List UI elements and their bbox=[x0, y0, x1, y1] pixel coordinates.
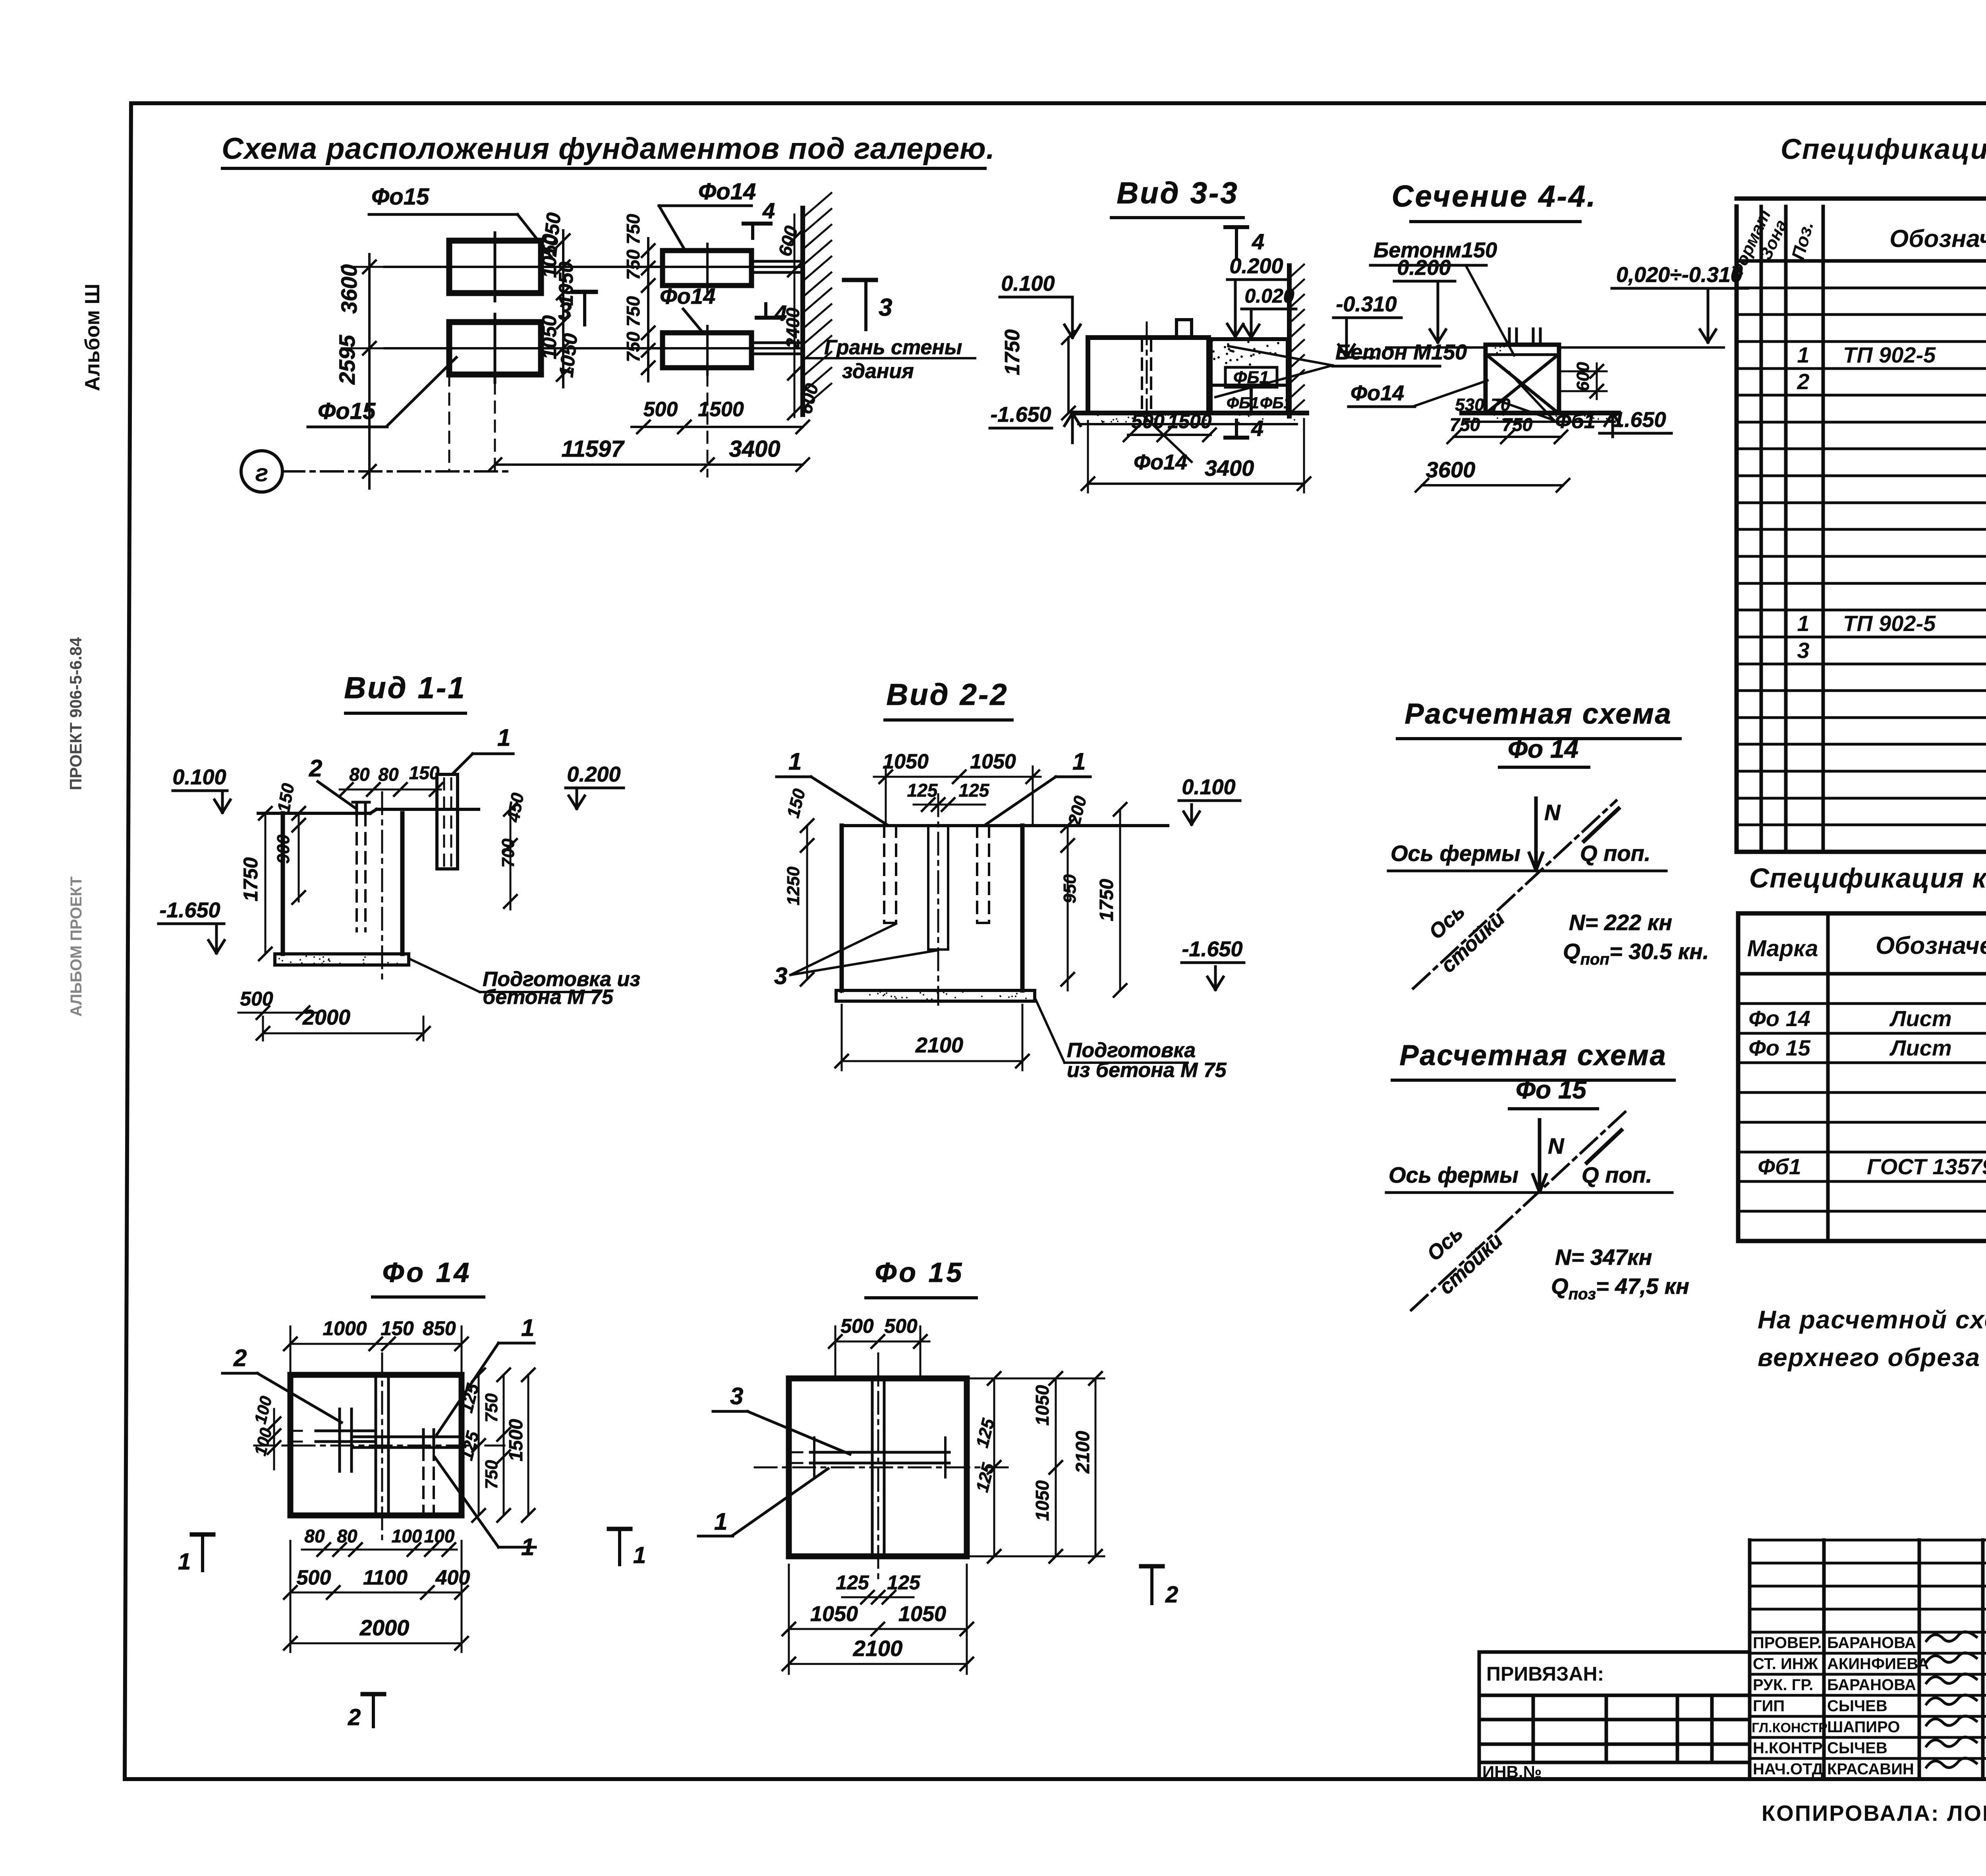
svg-text:1: 1 bbox=[633, 1542, 646, 1568]
svg-text:ПРОЕКТ 906-5-6.84: ПРОЕКТ 906-5-6.84 bbox=[66, 637, 85, 790]
foundation Фо14 lower bbox=[663, 333, 752, 368]
svg-text:1: 1 bbox=[714, 1508, 727, 1535]
svg-text:-1.650: -1.650 bbox=[159, 898, 220, 922]
svg-text:СТ. ИНЖ: СТ. ИНЖ bbox=[1753, 1655, 1818, 1673]
svg-text:Лист: Лист bbox=[1889, 1035, 1952, 1060]
svg-text:Q поп.: Q поп. bbox=[1580, 841, 1650, 866]
svg-text:здания: здания bbox=[842, 360, 914, 383]
anchors dashed bbox=[883, 826, 885, 923]
section mark 2 right bbox=[1141, 1564, 1163, 1569]
svg-text:850: 850 bbox=[423, 1317, 456, 1339]
svg-text:1750: 1750 bbox=[240, 857, 262, 901]
N arrow bbox=[1534, 798, 1538, 870]
svg-text:Обозначение: Обозначение bbox=[1889, 225, 1986, 253]
svg-text:Вид 3-3: Вид 3-3 bbox=[1117, 176, 1238, 210]
anchor stub on top bbox=[1177, 320, 1192, 338]
spec table 1: Спецификация монолитных фундаментов bbox=[1737, 199, 1986, 852]
svg-text:Фб1: Фб1 bbox=[1555, 410, 1596, 433]
ground lines bbox=[1386, 346, 1486, 349]
left dims 100 100 bbox=[273, 1409, 275, 1469]
svg-text:750: 750 bbox=[1450, 414, 1480, 435]
svg-text:Расчетная схема: Расчетная схема bbox=[1399, 1040, 1667, 1071]
svg-text:Ось фермы: Ось фермы bbox=[1389, 1162, 1518, 1187]
axes bbox=[254, 1445, 504, 1447]
svg-text:500: 500 bbox=[297, 1566, 331, 1589]
svg-text:2: 2 bbox=[348, 1704, 361, 1730]
svg-text:Фо14: Фо14 bbox=[660, 284, 715, 309]
joint double line bbox=[375, 1375, 377, 1515]
svg-text:-0.310: -0.310 bbox=[1336, 292, 1397, 316]
svg-text:0.100: 0.100 bbox=[1001, 272, 1055, 295]
svg-text:СЫЧЕВ: СЫЧЕВ bbox=[1827, 1739, 1887, 1757]
svg-text:750: 750 bbox=[1502, 414, 1533, 435]
svg-text:100: 100 bbox=[392, 1526, 422, 1546]
svg-text:2: 2 bbox=[233, 1345, 247, 1371]
svg-text:КОПИРОВАЛА: ЛОГИНОВА: КОПИРОВАЛА: ЛОГИНОВА bbox=[1762, 1801, 1986, 1826]
section mark 4 top bbox=[1225, 225, 1247, 229]
стойка axis diagonal bbox=[1413, 801, 1616, 988]
plan Фо 14 bbox=[178, 1257, 646, 1730]
svg-text:1500: 1500 bbox=[1167, 410, 1211, 432]
svg-text:4: 4 bbox=[774, 301, 787, 326]
dim 500 1500 bbox=[632, 426, 803, 428]
svg-text:1050: 1050 bbox=[555, 332, 582, 378]
svg-text:Альбом Ш: Альбом Ш bbox=[81, 284, 104, 391]
svg-text:БАРАНОВА: БАРАНОВА bbox=[1827, 1676, 1916, 1694]
N arrow bbox=[1538, 1120, 1542, 1191]
svg-text:1: 1 bbox=[178, 1549, 191, 1575]
svg-text:1500: 1500 bbox=[506, 1419, 527, 1461]
svg-text:Схема расположения фундаментов: Схема расположения фундаментов под галер… bbox=[222, 132, 995, 166]
center stakan bbox=[927, 826, 929, 950]
svg-text:1050: 1050 bbox=[1032, 1385, 1053, 1426]
svg-text:Фо14: Фо14 bbox=[1134, 450, 1187, 474]
title block (штамп) bbox=[1479, 1540, 1986, 1779]
svg-text:2100: 2100 bbox=[1072, 1431, 1093, 1474]
svg-text:Обозначение: Обозначение bbox=[1876, 932, 1986, 959]
svg-text:500: 500 bbox=[840, 1315, 874, 1337]
svg-text:Бетон М150: Бетон М150 bbox=[1335, 340, 1467, 364]
right dim chains bbox=[993, 1378, 995, 1556]
svg-text:1: 1 bbox=[521, 1314, 534, 1341]
svg-text:125: 125 bbox=[959, 780, 990, 801]
svg-text:0.100: 0.100 bbox=[1182, 775, 1235, 799]
base line and подготовка bbox=[1072, 411, 1307, 415]
svg-text:11597: 11597 bbox=[562, 436, 625, 462]
svg-text:1050: 1050 bbox=[883, 750, 929, 773]
section mark 2 bottom bbox=[363, 1692, 384, 1697]
svg-text:АКИНФИЕВА: АКИНФИЕВА bbox=[1827, 1655, 1929, 1673]
svg-text:125: 125 bbox=[836, 1571, 869, 1594]
svg-text:ПРИВЯЗАН:: ПРИВЯЗАН: bbox=[1486, 1663, 1604, 1685]
right anchor bbox=[354, 1436, 459, 1438]
svg-text:Фо 14: Фо 14 bbox=[1748, 1006, 1810, 1031]
dims 600 2400 600 near wall bbox=[794, 214, 796, 417]
view Вид 3-3 bbox=[990, 176, 1467, 492]
right dim chains bbox=[478, 1375, 480, 1515]
dims right 200 950 1750 bbox=[1067, 826, 1069, 990]
dim 1750 bbox=[265, 813, 267, 954]
svg-text:1050: 1050 bbox=[970, 750, 1016, 773]
svg-text:1050: 1050 bbox=[538, 211, 565, 258]
dim chain left (3600 / 2595) bbox=[368, 254, 371, 488]
spec table 2: Спецификация к схеме bbox=[1738, 913, 1986, 1241]
svg-text:Ось фермы: Ось фермы bbox=[1391, 841, 1520, 866]
svg-text:2: 2 bbox=[309, 755, 322, 782]
svg-text:1100: 1100 bbox=[363, 1566, 408, 1589]
base slab подготовка bbox=[275, 954, 409, 965]
ферма axis line bbox=[1388, 870, 1666, 872]
foundation Фо15 lower square bbox=[449, 322, 541, 374]
svg-text:НАЧ.ОТД: НАЧ.ОТД bbox=[1753, 1760, 1823, 1778]
svg-text:2: 2 bbox=[1797, 369, 1809, 394]
svg-text:ПРОВЕР.: ПРОВЕР. bbox=[1753, 1634, 1822, 1652]
svg-text:1: 1 bbox=[1797, 611, 1809, 636]
svg-text:ТП 902-5: ТП 902-5 bbox=[1843, 342, 1936, 367]
расчетная схема Фо 14 bbox=[1388, 698, 1709, 988]
dims right 450 700 bbox=[510, 809, 512, 909]
svg-text:Спецификация монолитных фундам: Спецификация монолитных фундаментов bbox=[1781, 133, 1986, 165]
svg-text:3: 3 bbox=[730, 1383, 743, 1409]
svg-text:3400: 3400 bbox=[729, 436, 780, 462]
svg-text:2: 2 bbox=[1165, 1582, 1178, 1608]
svg-text:80: 80 bbox=[304, 1526, 325, 1546]
svg-text:400: 400 bbox=[435, 1566, 470, 1589]
section mark 3 left bbox=[573, 290, 596, 294]
svg-text:3: 3 bbox=[558, 298, 572, 325]
svg-text:Фо 14: Фо 14 bbox=[383, 1257, 472, 1288]
Q arrow bbox=[1587, 1130, 1621, 1163]
svg-text:1250: 1250 bbox=[784, 867, 803, 905]
svg-text:Фо15: Фо15 bbox=[371, 184, 429, 210]
svg-text:ТП 902-5: ТП 902-5 bbox=[1843, 611, 1936, 636]
section mark 1 right bbox=[609, 1527, 630, 1531]
svg-text:N: N bbox=[1544, 800, 1561, 825]
svg-text:Фо14: Фо14 bbox=[698, 179, 756, 205]
block wall ФБ1 bbox=[1211, 339, 1288, 413]
building wall with hatch bbox=[800, 208, 805, 415]
svg-text:2100: 2100 bbox=[915, 1033, 963, 1057]
joint double line bbox=[871, 1378, 874, 1556]
svg-text:Фо14: Фо14 bbox=[1350, 381, 1404, 405]
right anchor column bbox=[437, 773, 458, 776]
svg-text:0.100: 0.100 bbox=[172, 765, 226, 789]
svg-text:750: 750 bbox=[482, 1393, 501, 1422]
dim 750 750 at Фо14 bbox=[647, 238, 649, 381]
wire: dashed projection line bbox=[448, 374, 450, 471]
svg-text:2000: 2000 bbox=[302, 1006, 350, 1029]
svg-text:950: 950 bbox=[1060, 874, 1080, 903]
svg-text:КРАСАВИН: КРАСАВИН bbox=[1827, 1760, 1914, 1778]
svg-text:100: 100 bbox=[424, 1526, 455, 1546]
outline bbox=[789, 1378, 967, 1556]
svg-text:0.020: 0.020 bbox=[1244, 285, 1294, 307]
foundation Фо15 upper square bbox=[449, 241, 541, 293]
svg-text:Лист: Лист bbox=[1889, 1006, 1952, 1031]
svg-text:3600: 3600 bbox=[336, 264, 361, 314]
svg-text:0.200: 0.200 bbox=[1397, 256, 1451, 280]
wall connection strips bbox=[752, 260, 803, 263]
dim 600 right bbox=[1596, 363, 1598, 399]
base slab bbox=[836, 990, 1035, 1001]
svg-text:500: 500 bbox=[884, 1315, 918, 1337]
svg-text:3: 3 bbox=[774, 963, 787, 989]
left anchors dashed bbox=[353, 801, 369, 804]
svg-text:0.200: 0.200 bbox=[567, 762, 620, 786]
стойка axis diagonal bbox=[1411, 1109, 1629, 1310]
dim 1750 bbox=[1067, 338, 1070, 413]
ферма axis line bbox=[1386, 1191, 1672, 1194]
svg-text:N= 347кн: N= 347кн bbox=[1555, 1245, 1652, 1270]
view Сечение 4-4 bbox=[1348, 179, 1748, 492]
svg-text:150: 150 bbox=[409, 762, 440, 783]
svg-text:Сечение 4-4.: Сечение 4-4. bbox=[1392, 179, 1597, 213]
bottom dim 11597 / 3400 bbox=[495, 463, 803, 466]
svg-text:750 750: 750 750 bbox=[623, 296, 643, 362]
svg-text:1500: 1500 bbox=[698, 398, 744, 421]
axes bbox=[755, 1467, 1011, 1469]
svg-text:2100: 2100 bbox=[853, 1636, 903, 1661]
building wall hatch bbox=[1287, 266, 1292, 416]
svg-text:3: 3 bbox=[1797, 638, 1809, 663]
svg-text:1050: 1050 bbox=[898, 1602, 946, 1626]
anchor horizontals bbox=[810, 1451, 949, 1454]
view Вид 1-1 bbox=[158, 671, 640, 1040]
foundation body bbox=[1088, 338, 1209, 413]
dims left 150 900 bbox=[298, 813, 300, 901]
dims left 150 1250 bbox=[806, 826, 808, 979]
left anchor bbox=[338, 1409, 341, 1471]
svg-text:ФБ1: ФБ1 bbox=[1227, 394, 1259, 412]
svg-text:1: 1 bbox=[1072, 748, 1086, 775]
svg-text:3: 3 bbox=[879, 294, 892, 321]
svg-text:СЫЧЕВ: СЫЧЕВ bbox=[1827, 1697, 1887, 1715]
axis bbox=[937, 794, 939, 1005]
svg-text:Фо 15: Фо 15 bbox=[1516, 1075, 1587, 1104]
svg-text:1050: 1050 bbox=[810, 1602, 858, 1626]
svg-text:1: 1 bbox=[788, 748, 802, 775]
svg-text:4: 4 bbox=[1252, 229, 1264, 254]
svg-text:1050: 1050 bbox=[1032, 1480, 1053, 1521]
svg-text:-1.650: -1.650 bbox=[1605, 408, 1666, 432]
svg-text:3400: 3400 bbox=[1205, 455, 1254, 481]
base slab bbox=[1462, 411, 1619, 415]
pedestal bbox=[840, 826, 844, 990]
svg-text:700: 700 bbox=[498, 838, 518, 868]
truss axis upper bbox=[384, 266, 803, 268]
svg-text:-1.650: -1.650 bbox=[1182, 937, 1242, 961]
svg-text:150: 150 bbox=[381, 1317, 414, 1339]
svg-text:2000: 2000 bbox=[359, 1615, 410, 1640]
svg-text:750: 750 bbox=[482, 1460, 501, 1489]
truss axis lower bbox=[384, 347, 803, 349]
svg-text:1: 1 bbox=[1797, 342, 1809, 367]
svg-text:4: 4 bbox=[762, 198, 775, 223]
svg-text:г: г bbox=[255, 459, 268, 487]
svg-text:Спецификация к схеме расположе: Спецификация к схеме расположения фундам… bbox=[1749, 863, 1986, 894]
column bbox=[1486, 345, 1559, 413]
svg-text:N= 222 кн: N= 222 кн bbox=[1569, 910, 1672, 935]
svg-text:Фо 15: Фо 15 bbox=[1748, 1035, 1811, 1060]
svg-text:2595: 2595 bbox=[334, 335, 359, 385]
svg-text:500: 500 bbox=[643, 398, 678, 421]
view Вид 2-2 bbox=[774, 678, 1244, 1082]
расчетная схема Фо 15 bbox=[1386, 1040, 1689, 1310]
svg-text:3600: 3600 bbox=[1426, 457, 1476, 482]
svg-text:530: 530 bbox=[1455, 395, 1484, 415]
outline bbox=[290, 1375, 462, 1515]
section mark 1 left bbox=[192, 1532, 213, 1537]
foundation Фо14 upper bbox=[663, 251, 752, 286]
svg-text:ИНВ.№: ИНВ.№ bbox=[1482, 1762, 1542, 1781]
svg-text:Вид 1-1: Вид 1-1 bbox=[344, 671, 466, 705]
pedestal bbox=[281, 813, 285, 954]
svg-text:600: 600 bbox=[1573, 362, 1593, 391]
svg-text:БАРАНОВА: БАРАНОВА bbox=[1827, 1634, 1916, 1652]
svg-text:ГОСТ 13579-78: ГОСТ 13579-78 bbox=[1867, 1154, 1986, 1179]
svg-text:125: 125 bbox=[887, 1571, 921, 1594]
svg-text:ГИП: ГИП bbox=[1753, 1697, 1785, 1715]
svg-text:1000: 1000 bbox=[323, 1317, 367, 1339]
svg-text:Расчетная схема: Расчетная схема bbox=[1404, 698, 1672, 730]
lines to right for dim 600 bbox=[1559, 371, 1607, 372]
svg-text:1750: 1750 bbox=[1001, 329, 1024, 375]
plan: схема расположения фундаментов bbox=[241, 179, 975, 492]
svg-text:Фб1: Фб1 bbox=[1758, 1154, 1801, 1179]
svg-text:Грань стены: Грань стены bbox=[824, 336, 962, 359]
svg-text:1: 1 bbox=[497, 724, 510, 751]
svg-text:ШАПИРО: ШАПИРО bbox=[1827, 1718, 1900, 1736]
svg-text:80: 80 bbox=[349, 764, 370, 785]
svg-text:Фо 15: Фо 15 bbox=[875, 1257, 964, 1288]
svg-text:бетона М 75: бетона М 75 bbox=[483, 986, 614, 1009]
svg-text:4: 4 bbox=[1251, 416, 1263, 441]
section mark 4 bottom bbox=[1225, 436, 1247, 440]
svg-text:Фо 14: Фо 14 bbox=[1508, 735, 1578, 763]
svg-text:ГЛ.КОНСТР: ГЛ.КОНСТР bbox=[1752, 1720, 1828, 1735]
svg-text:N: N bbox=[1548, 1133, 1565, 1158]
axis line г bbox=[282, 470, 508, 473]
svg-text:Q поп.: Q поп. bbox=[1582, 1162, 1652, 1187]
svg-text:1750: 1750 bbox=[1096, 879, 1117, 921]
ground line bbox=[258, 812, 370, 815]
svg-text:750 750: 750 750 bbox=[623, 214, 643, 280]
axis line bbox=[381, 792, 383, 979]
section mark 3 right bbox=[844, 278, 876, 282]
signatures bbox=[1926, 1632, 1976, 1641]
svg-text:Н.КОНТР: Н.КОНТР bbox=[1753, 1739, 1823, 1757]
plan Фо 15 bbox=[698, 1257, 1178, 1674]
svg-text:На расчетной схеме дана нормат: На расчетной схеме дана нормативная нагр… bbox=[1758, 1305, 1986, 1334]
svg-text:-1.650: -1.650 bbox=[990, 403, 1051, 427]
svg-text:РУК. ГР.: РУК. ГР. bbox=[1753, 1676, 1813, 1694]
svg-text:верхнего обреза фундамента.: верхнего обреза фундамента. bbox=[1758, 1343, 1986, 1372]
svg-text:125: 125 bbox=[907, 780, 938, 801]
ground top line bbox=[842, 824, 1168, 827]
dim chain right of Фо15 (1050s) bbox=[562, 230, 564, 387]
svg-text:900: 900 bbox=[274, 834, 293, 864]
svg-text:0,020÷-0.310: 0,020÷-0.310 bbox=[1616, 263, 1743, 287]
svg-text:Фо15: Фо15 bbox=[318, 398, 376, 424]
svg-text:АЛЬБОМ ПРОЕКТ: АЛЬБОМ ПРОЕКТ bbox=[68, 876, 85, 1017]
svg-text:80: 80 bbox=[378, 764, 399, 785]
svg-text:Вид 2-2: Вид 2-2 bbox=[886, 678, 1008, 712]
Q arrow bbox=[1584, 809, 1619, 841]
svg-text:Марка: Марка bbox=[1747, 936, 1818, 961]
axis circle г bbox=[241, 451, 282, 492]
